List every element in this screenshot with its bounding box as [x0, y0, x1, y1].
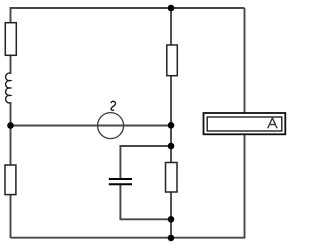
node A (left junction): [7, 122, 14, 129]
capacitor C1 plates: [109, 178, 132, 180]
resistor R3 (middle top): [167, 45, 178, 76]
wire right border lower (from ammeter): [244, 134, 246, 238]
resistor R1 (top left): [5, 23, 16, 56]
wire left border segment L1 to node A: [10, 102, 12, 126]
wire parallel-section bottom (capacitor branch to node D): [120, 185, 171, 219]
resistor R2 (bottom left): [5, 165, 16, 195]
wire middle vertical (R3 to R4 through nodes B,C): [170, 75, 172, 163]
wire right border upper (to ammeter): [244, 8, 246, 114]
wire middle horizontal (node A to node B through source): [11, 125, 172, 127]
node C (top of parallel section): [168, 143, 175, 150]
inductor L1 (left): [6, 73, 11, 103]
source G1 squiggle mark: [111, 101, 116, 110]
wire left border segment R2 to bottom: [10, 194, 12, 238]
wire middle vertical bottom (R4 to bottom border): [170, 192, 172, 238]
resistor R4 (parallel with capacitor): [166, 163, 178, 193]
ammeter A inner box: [207, 117, 282, 131]
wire middle vertical top (top node to R3): [170, 8, 172, 46]
wire left border segment above R1: [10, 7, 12, 23]
wire parallel-section top (node C to capacitor branch): [120, 146, 171, 179]
wire left border segment node A to R2: [10, 126, 12, 166]
ammeter A outer box: [204, 113, 286, 134]
wire top border: [11, 7, 245, 9]
node E (junction on bottom border): [168, 235, 175, 242]
ammeter label A: [268, 118, 277, 128]
wire bottom border: [11, 237, 246, 239]
node D (bottom of parallel section): [168, 216, 175, 223]
source G1 circle: [98, 113, 124, 139]
node top (junction on top border): [168, 5, 175, 12]
node B (middle junction on mid wire): [168, 122, 175, 129]
wire left border segment R1 to L1: [10, 55, 12, 74]
